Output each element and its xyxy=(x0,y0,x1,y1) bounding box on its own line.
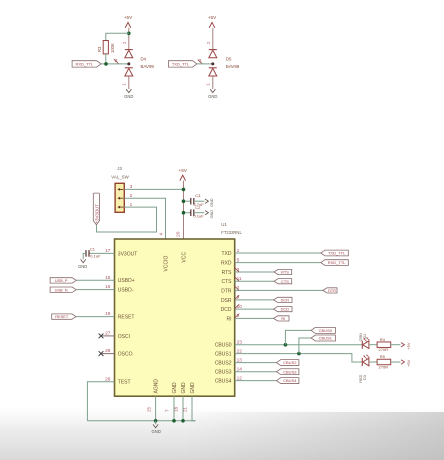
wire GND pin7 xyxy=(173,396,175,421)
svg-text:CBUS0: CBUS0 xyxy=(215,343,232,349)
svg-text:RI: RI xyxy=(281,316,285,321)
svg-text:FT232RNL: FT232RNL xyxy=(221,230,242,235)
wire +5V to diode D4 xyxy=(128,28,130,50)
pin 27 stub no-connect xyxy=(102,335,115,337)
ground (clamp D4) xyxy=(124,89,133,99)
wire R5 to +5V xyxy=(391,361,401,363)
label USB_N xyxy=(50,287,76,292)
pin 22 CBUS1 xyxy=(215,348,242,357)
power +5V (main) xyxy=(179,168,188,181)
label RXD_TTL xyxy=(72,61,101,67)
wire CBUS2 xyxy=(235,362,277,364)
LED D2 GRN xyxy=(359,333,369,349)
label USB_P xyxy=(50,278,76,283)
wire CBUS0 to LED D2 xyxy=(235,344,363,346)
ground (C3) xyxy=(205,198,214,207)
pin 2 DTR xyxy=(221,285,239,294)
svg-text:R5: R5 xyxy=(380,354,386,359)
svg-text:D4: D4 xyxy=(141,57,147,62)
svg-text:D3: D3 xyxy=(363,375,367,380)
pin 5 RXD xyxy=(221,257,240,266)
svg-text:CTS: CTS xyxy=(222,279,233,285)
wire RXD_TTL input xyxy=(101,63,129,65)
svg-text:CBUS3: CBUS3 xyxy=(283,369,297,374)
label RI xyxy=(274,316,290,321)
power +5V (R4) xyxy=(401,342,411,350)
svg-text:CBUS0: CBUS0 xyxy=(319,328,333,333)
pin 14 CBUS3 xyxy=(215,367,242,376)
svg-text:4: 4 xyxy=(158,232,163,235)
connector J3 VAL_SW xyxy=(111,166,132,212)
wire CTS xyxy=(235,280,274,282)
svg-text:RESET: RESET xyxy=(118,315,135,321)
pin 12 CBUS4 xyxy=(215,375,242,384)
label CBUS4 xyxy=(277,378,299,384)
resistor R4 270R xyxy=(377,337,391,352)
svg-text:+5V: +5V xyxy=(124,15,133,20)
svg-text:GND: GND xyxy=(210,198,214,207)
svg-text:GND: GND xyxy=(210,210,214,219)
pin 13 CBUS2 xyxy=(215,357,242,366)
svg-text:CBUS1: CBUS1 xyxy=(319,336,333,341)
LED D3 RED xyxy=(359,355,369,383)
svg-text:CBUS2: CBUS2 xyxy=(283,360,297,365)
pin 28 OSCO xyxy=(105,348,133,357)
svg-text:D2: D2 xyxy=(363,334,367,339)
capacitor C2 xyxy=(185,205,204,219)
svg-text:+5V: +5V xyxy=(208,15,217,20)
pin 19 RESET xyxy=(105,311,134,320)
svg-text:CTS: CTS xyxy=(281,279,289,284)
wire J3 pin1 to 3V3OUT label xyxy=(97,207,157,232)
pin 26 TEST xyxy=(105,376,130,385)
pin 3 RTS xyxy=(222,267,240,276)
svg-text:DCR: DCR xyxy=(281,298,290,303)
junction +5V/J3 pin3 xyxy=(182,188,186,192)
label TXD_TTL (right) xyxy=(321,250,349,256)
pin 4 VCCIO xyxy=(158,232,169,271)
svg-text:2: 2 xyxy=(122,41,127,44)
svg-text:BAV99: BAV99 xyxy=(226,64,240,69)
wire +5V to VCC pin 20 xyxy=(183,181,185,239)
svg-text:GND: GND xyxy=(78,264,87,269)
svg-text:GND: GND xyxy=(152,429,161,434)
label +3V3OUT (vertical) xyxy=(93,193,99,225)
svg-text:GND: GND xyxy=(181,382,187,394)
diode D5 (BAV99 dual) xyxy=(198,41,240,86)
pin 17 3V3OUT xyxy=(105,248,137,257)
wire RTS xyxy=(235,271,274,273)
svg-text:OSCO: OSCO xyxy=(118,352,133,358)
svg-text:USBD-: USBD- xyxy=(118,288,134,294)
wire DSR xyxy=(235,299,274,301)
wire DTR xyxy=(235,289,323,291)
wire CBUS1 label stub xyxy=(299,338,311,354)
junction RXD_TTL/R3 xyxy=(104,62,108,66)
wire CBUS0 label stub xyxy=(285,330,311,344)
wire D5 to GND xyxy=(212,76,214,89)
wire C1 to GND xyxy=(83,253,86,259)
capacitor C3 xyxy=(185,193,204,207)
svg-text:R3: R3 xyxy=(97,46,102,52)
svg-text:CBUS4: CBUS4 xyxy=(283,378,297,383)
pin 27 OSCI xyxy=(105,331,130,340)
svg-text:GND: GND xyxy=(208,94,217,99)
svg-text:RTS: RTS xyxy=(281,270,289,275)
svg-text:VCCIO: VCCIO xyxy=(164,256,170,272)
svg-text:+3V3OUT: +3V3OUT xyxy=(94,204,99,224)
junction C3 xyxy=(182,199,186,203)
ground (clamp D5) xyxy=(208,89,217,99)
svg-text:RESET: RESET xyxy=(55,314,69,319)
svg-text:CBUS1: CBUS1 xyxy=(215,352,232,358)
wire R3 to node xyxy=(105,54,107,64)
svg-text:270R: 270R xyxy=(379,364,389,369)
svg-text:25: 25 xyxy=(146,406,151,412)
svg-text:RXD: RXD xyxy=(221,261,232,267)
svg-text:RXD_TTL: RXD_TTL xyxy=(76,62,95,67)
svg-text:TEST: TEST xyxy=(118,380,131,386)
wire RXD xyxy=(235,262,321,264)
wire TXD xyxy=(235,252,321,254)
svg-text:CBUS2: CBUS2 xyxy=(215,361,232,367)
label CBUS2 xyxy=(277,360,299,366)
pin 15 USBD+ xyxy=(105,275,135,284)
node diode D4 pin3 xyxy=(127,62,130,65)
wire CBUS1 to LED D3 xyxy=(235,354,363,362)
wire RESET to pin19 xyxy=(76,316,115,318)
svg-text:RI: RI xyxy=(227,316,232,322)
svg-text:USBD+: USBD+ xyxy=(118,278,135,284)
wire LED D2 to R4 xyxy=(369,344,377,346)
pin 6 RI xyxy=(227,313,240,322)
wire ground rail xyxy=(87,420,195,422)
svg-text:+5V: +5V xyxy=(406,359,411,367)
svg-text:CBUS3: CBUS3 xyxy=(215,370,232,376)
wire J3 pin2 to VCCIO xyxy=(124,198,165,239)
svg-text:C3: C3 xyxy=(195,193,201,198)
pin 10 DCD xyxy=(221,304,243,313)
junction CBUS1 xyxy=(297,352,301,356)
ground (C1) xyxy=(78,259,87,269)
ground (C2) xyxy=(205,210,214,219)
junction node +5V/R3 xyxy=(127,32,131,36)
wire TXD_TTL input xyxy=(197,63,213,65)
wire GND pin21 xyxy=(192,396,196,421)
power +5V (clamp D5) xyxy=(208,15,217,28)
label RTS xyxy=(274,269,292,274)
svg-text:2: 2 xyxy=(206,41,211,44)
svg-text:DTR: DTR xyxy=(221,288,232,294)
power +5V (R5) xyxy=(401,359,411,367)
pin 25 AGND xyxy=(146,379,159,412)
wire CBUS4 xyxy=(235,380,277,382)
junction GND7 rail xyxy=(172,419,176,423)
label CBUS3 xyxy=(277,369,299,375)
ground (rail) xyxy=(152,421,161,434)
label DSR xyxy=(274,297,293,302)
label RXD_TTL (right) xyxy=(321,260,349,266)
resistor R5 270R xyxy=(377,354,391,369)
pin 23 CBUS0 xyxy=(215,340,242,349)
svg-text:GND: GND xyxy=(172,382,178,394)
svg-text:C1: C1 xyxy=(90,247,96,252)
svg-text:0.1uF: 0.1uF xyxy=(193,214,204,219)
wire +5V to diode D5 xyxy=(212,28,214,50)
svg-text:U1: U1 xyxy=(221,222,227,227)
svg-text:1: 1 xyxy=(122,83,127,86)
svg-text:+5V: +5V xyxy=(179,168,188,173)
svg-text:D5: D5 xyxy=(226,57,232,62)
label DTR xyxy=(323,288,337,293)
svg-text:7: 7 xyxy=(164,409,169,412)
wire R3 branch xyxy=(106,33,129,40)
label DCD xyxy=(274,307,293,312)
pin 20 VCC xyxy=(175,231,187,262)
svg-text:GND: GND xyxy=(124,94,133,99)
svg-text:J3: J3 xyxy=(117,166,122,171)
svg-text:DCD: DCD xyxy=(281,307,290,312)
svg-text:GND: GND xyxy=(190,382,196,394)
svg-text:VCC: VCC xyxy=(182,252,188,263)
svg-text:RTS: RTS xyxy=(222,270,233,276)
pin 9 DSR xyxy=(221,295,240,304)
svg-text:100K: 100K xyxy=(110,43,115,53)
pin 16 USBD- xyxy=(105,284,134,293)
svg-text:3V3OUT: 3V3OUT xyxy=(118,251,137,257)
wire 3V3OUT pin17 xyxy=(89,252,115,254)
op IC U1 FT232RNL body xyxy=(115,222,243,396)
svg-text:VAL_SW: VAL_SW xyxy=(111,175,129,180)
label CBUS0 xyxy=(311,327,335,333)
pin 18 GND xyxy=(173,382,187,412)
label RESET xyxy=(52,314,76,319)
wire J3 pin3 to +5V xyxy=(124,188,183,190)
power +5V (clamp D4) xyxy=(124,15,133,28)
svg-text:BAV99: BAV99 xyxy=(141,64,155,69)
node diode D5 pin3 xyxy=(211,62,214,65)
svg-text:R4: R4 xyxy=(380,337,386,342)
wire USB_P to pin15 xyxy=(76,279,114,281)
svg-text:0.1uF: 0.1uF xyxy=(90,254,101,259)
svg-text:USB_P: USB_P xyxy=(55,278,68,283)
svg-text:RXD_TTL: RXD_TTL xyxy=(328,260,347,265)
junction GND18 rail xyxy=(181,419,185,423)
svg-text:C2: C2 xyxy=(195,205,201,210)
svg-text:20: 20 xyxy=(175,231,181,237)
label CBUS1 xyxy=(311,335,335,341)
background desk gradient xyxy=(0,408,444,460)
svg-text:270R: 270R xyxy=(379,347,389,352)
svg-text:TXD_TTL: TXD_TTL xyxy=(328,251,346,256)
junction AGND rail xyxy=(154,419,158,423)
pin 7 GND xyxy=(164,382,178,412)
svg-text:DTR: DTR xyxy=(328,288,336,293)
svg-text:USB_N: USB_N xyxy=(55,287,68,292)
wire D4 to GND xyxy=(128,76,130,89)
svg-text:OSCI: OSCI xyxy=(118,334,130,340)
junction CBUS0 xyxy=(284,343,288,347)
wire RI xyxy=(235,317,274,319)
svg-text:+5V: +5V xyxy=(406,342,411,350)
svg-text:1: 1 xyxy=(206,83,211,86)
pin 1 TXD xyxy=(222,248,240,257)
wire GND pin18 xyxy=(182,396,184,421)
svg-text:AGND: AGND xyxy=(154,379,160,394)
wire LED D3 to R5 xyxy=(369,361,377,363)
wire AGND pin25 xyxy=(155,396,157,421)
svg-text:CBUS4: CBUS4 xyxy=(215,379,232,385)
diode D4 (BAV99 dual) xyxy=(114,41,155,86)
svg-text:DSR: DSR xyxy=(221,298,232,304)
wire R4 to +5V xyxy=(391,344,401,346)
pin 28 stub no-connect xyxy=(102,353,115,355)
pin 21 GND xyxy=(182,382,196,412)
wire CBUS3 xyxy=(235,371,277,373)
wire DCD xyxy=(235,308,274,310)
capacitor C1 xyxy=(86,247,101,259)
svg-text:TXD_TTL: TXD_TTL xyxy=(172,62,190,67)
label TXD_TTL xyxy=(168,61,196,67)
label CTS xyxy=(274,279,292,284)
wire TEST to ground rail xyxy=(87,382,114,421)
svg-text:DCD: DCD xyxy=(221,307,232,313)
junction C2 xyxy=(182,211,186,215)
resistor R3 xyxy=(97,41,115,54)
svg-text:TXD: TXD xyxy=(222,251,232,257)
pin 11 CTS xyxy=(222,276,242,285)
wire USB_N to pin16 xyxy=(76,289,114,291)
